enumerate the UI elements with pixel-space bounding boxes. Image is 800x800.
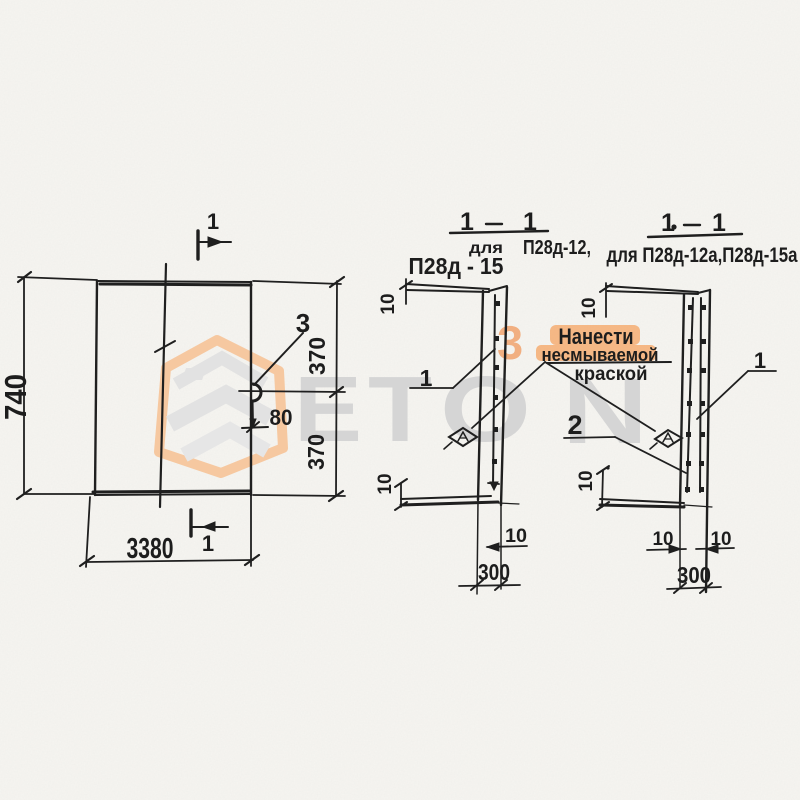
svg-text:3380: 3380 (127, 533, 174, 565)
svg-text:10: 10 (505, 526, 527, 547)
svg-text:300: 300 (677, 562, 711, 588)
svg-text:краской: краской (575, 364, 648, 385)
svg-text:1: 1 (202, 531, 214, 556)
svg-text:П28д-12,: П28д-12, (523, 237, 591, 259)
svg-text:1: 1 (712, 209, 726, 237)
svg-text:1: 1 (661, 209, 675, 237)
svg-text:10: 10 (579, 297, 600, 318)
svg-text:П28д - 15: П28д - 15 (409, 253, 504, 279)
svg-text:2: 2 (567, 410, 582, 440)
svg-text:370: 370 (304, 337, 330, 375)
svg-text:1: 1 (754, 348, 766, 373)
svg-text:370: 370 (303, 434, 329, 470)
svg-text:10: 10 (375, 473, 396, 494)
svg-text:80: 80 (270, 405, 293, 430)
svg-text:10: 10 (653, 529, 674, 550)
svg-text:для П28д-12а,П28д-15а: для П28д-12а,П28д-15а (607, 244, 798, 267)
svg-text:3: 3 (296, 308, 310, 338)
svg-text:3: 3 (497, 316, 523, 369)
svg-text:O: O (440, 357, 531, 461)
svg-text:10: 10 (711, 529, 732, 550)
svg-text:10: 10 (576, 470, 597, 491)
svg-text:10: 10 (378, 293, 399, 314)
svg-text:1: 1 (207, 209, 219, 234)
svg-text:740: 740 (0, 374, 33, 420)
